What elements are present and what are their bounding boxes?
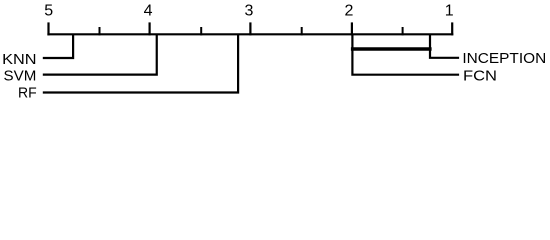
axis line	[47, 33, 453, 35]
svg-text:SVM: SVM	[4, 69, 37, 85]
svg-text:5: 5	[44, 3, 53, 20]
INCEPTION label	[462, 51, 546, 67]
svg-text:RF: RF	[18, 86, 37, 102]
svg-text:1: 1	[445, 3, 454, 20]
svg-text:FCN: FCN	[463, 69, 497, 85]
minor tick 1.5	[402, 27, 404, 35]
RF label	[18, 86, 37, 102]
rank label 5	[44, 3, 53, 20]
major tick 4	[149, 22, 151, 35]
RF connector line	[43, 34, 238, 92]
minor tick 4.5	[99, 27, 101, 35]
rank label 1	[445, 3, 454, 20]
INCEPTION connector line	[430, 34, 459, 58]
major tick 1	[451, 22, 453, 35]
rank label 3	[244, 3, 253, 20]
SVM connector line	[43, 34, 157, 74]
major tick 3	[249, 22, 251, 35]
svg-text:3: 3	[244, 3, 253, 20]
KNN connector line	[43, 34, 73, 58]
svg-text:4: 4	[144, 3, 153, 20]
major tick 2	[351, 22, 353, 35]
clique bar (INCEPTION-FCN)	[351, 47, 432, 51]
FCN connector line	[352, 34, 459, 74]
svg-text:2: 2	[345, 3, 354, 20]
minor tick 3.5	[200, 27, 202, 35]
KNN label	[2, 52, 36, 68]
rank label 2	[345, 3, 354, 20]
svg-text:INCEPTION: INCEPTION	[462, 51, 546, 67]
FCN label	[463, 69, 497, 85]
SVM label	[4, 69, 37, 85]
minor tick 2.5	[301, 27, 303, 35]
rank label 4	[144, 3, 153, 20]
major tick 5	[47, 22, 49, 35]
svg-text:KNN: KNN	[2, 52, 36, 68]
